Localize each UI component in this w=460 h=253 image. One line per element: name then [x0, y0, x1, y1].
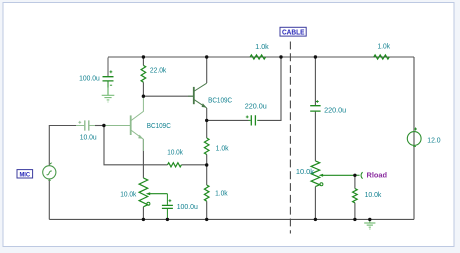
wire 22k top lead from rail: [142, 57, 144, 96]
wire Q1 emitter column down to pot: [142, 139, 144, 178]
wire pot bottom to rail: [142, 207, 144, 220]
resistor 10.0k (load under Rload): [353, 189, 358, 203]
wire MIC bottom lead: [48, 180, 50, 220]
wire Q2 collector to rail: [206, 57, 208, 83]
wire emitter divider column: [206, 120, 208, 219]
capacitor C 220.0u (receive side, vertical): [310, 106, 320, 111]
transistor Q2 BC109C (output): [188, 83, 207, 108]
potentiometer 10.0k (receive volume pot): [311, 161, 355, 187]
svg-text:10.0k: 10.0k: [167, 150, 183, 157]
svg-text:10.0k: 10.0k: [365, 192, 382, 199]
cable boundary dashed line: [289, 42, 291, 234]
svg-text:100.0u: 100.0u: [79, 76, 100, 83]
wire cap out to base node: [95, 125, 104, 127]
resistor 1.0k (cable feed, left): [250, 55, 265, 59]
svg-text:Rload: Rload: [367, 173, 388, 180]
svg-text:12.0: 12.0: [427, 137, 440, 144]
wire feedback from base node down and right: [104, 126, 207, 165]
resistor 1.0k (upper emitter divider): [204, 138, 209, 155]
svg-text:220.0u: 220.0u: [324, 107, 346, 114]
svg-text:1.0k: 1.0k: [216, 145, 230, 152]
svg-text:10.0u: 10.0u: [80, 135, 97, 142]
capacitor C 100.0u (emitter bypass, bottom): [162, 194, 173, 220]
wire Q2 emitter to node B: [206, 108, 208, 120]
wire output cap to cable node: [207, 57, 281, 120]
svg-text:100.0u: 100.0u: [177, 204, 198, 211]
svg-text:22.0k: 22.0k: [150, 67, 167, 74]
svg-text:10.0k: 10.0k: [296, 169, 315, 176]
svg-text:1.0k: 1.0k: [215, 190, 228, 197]
wire right column to 12V source: [413, 57, 415, 219]
capacitor C 100.0u (supply filter, top left): [103, 58, 114, 88]
svg-text:CABLE: CABLE: [282, 30, 305, 37]
CABLE label box: [280, 27, 306, 36]
resistor 10.0k (feedback, horizontal): [168, 163, 182, 167]
resistor 1.0k (lower emitter divider): [204, 185, 209, 201]
transistor Q1 BC109C (input, selected pale): [104, 96, 143, 151]
resistor 22.0k (collector load): [141, 65, 146, 82]
wire Rload column: [354, 175, 356, 219]
MIC source VG1: [43, 163, 56, 181]
resistor 1.0k (cable feed, right): [374, 55, 389, 59]
wire bottom ground rail: [49, 218, 414, 220]
wire node A to Q2 base: [143, 95, 193, 97]
ground under C 100.0u: [102, 88, 115, 103]
MIC label box: [17, 170, 33, 179]
svg-text:BC109C: BC109C: [208, 98, 232, 105]
capacitor C 220.0u (output coupling, horizontal): [249, 115, 259, 125]
battery source 12V: [407, 128, 421, 147]
potentiometer 10.0k (emitter gain pot): [139, 178, 167, 207]
svg-text:1.0k: 1.0k: [255, 44, 269, 51]
node Rload output tag: [355, 172, 363, 178]
ground (receive side): [364, 219, 375, 229]
svg-text:220.0u: 220.0u: [245, 104, 267, 111]
wire MIC to input node: [49, 126, 76, 166]
svg-text:MIC: MIC: [19, 172, 30, 179]
svg-text:10.0k: 10.0k: [120, 191, 137, 198]
wire top supply rail: [108, 56, 414, 58]
svg-text:1.0k: 1.0k: [378, 43, 391, 50]
svg-text:BC109C: BC109C: [147, 123, 171, 130]
wire cable receive cap column: [314, 57, 316, 219]
capacitor C 10.0u (input, selected pale): [76, 120, 95, 130]
